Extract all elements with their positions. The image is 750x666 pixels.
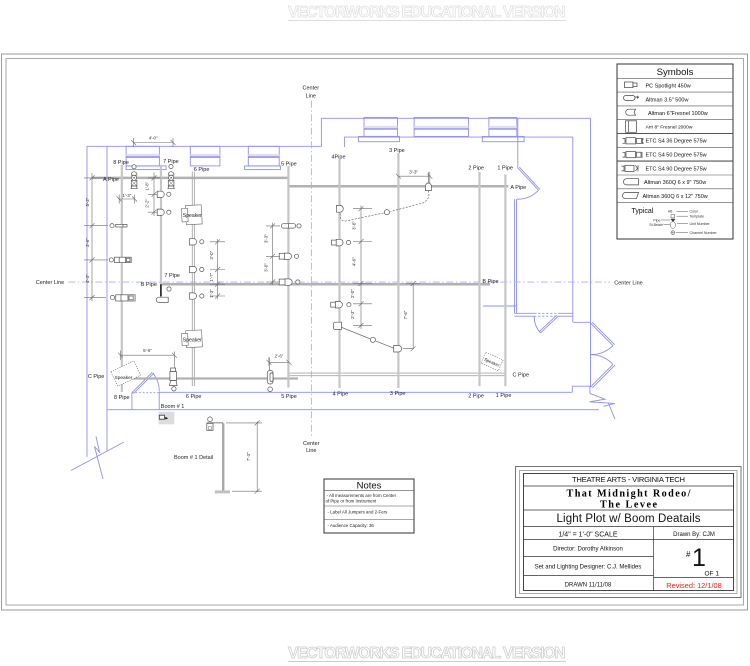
fixture F11 below B pipe xyxy=(156,287,171,303)
fixture F6 on 7 pipe xyxy=(157,191,171,197)
electric box 4 under-rect xyxy=(358,136,399,141)
electric box 6 xyxy=(489,118,517,137)
dim 1'-3" horizontal xyxy=(119,195,134,204)
left wall break diagonal xyxy=(71,442,124,471)
stage right door leaf xyxy=(518,167,540,190)
icon Altman 6 Fresnel xyxy=(626,109,636,115)
boom detail mast xyxy=(222,423,224,490)
svg-text:8 Pipe: 8 Pipe xyxy=(113,160,129,166)
svg-text:5 Pipe: 5 Pipe xyxy=(281,162,297,168)
5 pipe dim line x272.6 xyxy=(272,223,274,286)
3 pipe xyxy=(397,153,399,388)
watermark top xyxy=(288,4,566,21)
svg-text:1'-6": 1'-6" xyxy=(144,181,149,190)
svg-text:2 Pipe: 2 Pipe xyxy=(468,393,484,399)
fixture F5 on A pipe xyxy=(168,164,174,188)
stage left door arc xyxy=(153,373,159,392)
svg-text:Speaker: Speaker xyxy=(183,213,202,219)
svg-text:1'-3": 1'-3" xyxy=(123,193,132,198)
svg-text:3'-0": 3'-0" xyxy=(264,263,269,272)
fixture F18 flag on 4 pipe xyxy=(334,322,342,329)
fixture F14 on 5 pipe xyxy=(279,279,300,285)
alcove door leaf xyxy=(539,315,558,333)
fixture F20 on A pipe right xyxy=(425,172,431,191)
svg-text:Center: Center xyxy=(303,85,320,91)
svg-text:The Levee: The Levee xyxy=(600,500,657,511)
svg-text:3'-3": 3'-3" xyxy=(409,170,418,175)
6 pipe dim line x217.6 xyxy=(217,239,219,299)
alcove south wall right xyxy=(558,313,573,316)
A pipe left xyxy=(92,177,288,180)
stripe band box5 xyxy=(414,126,468,129)
dim 3'-3" top right xyxy=(398,172,429,183)
PIPES xyxy=(92,153,508,392)
svg-text:3'-3": 3'-3" xyxy=(264,234,269,243)
svg-text:VECTORWORKS EDUCATIONAL VERSIO: VECTORWORKS EDUCATIONAL VERSION xyxy=(288,645,566,662)
dim 2'-6" xyxy=(269,357,289,366)
alcove door arc xyxy=(534,316,540,333)
svg-text:7'-3": 7'-3" xyxy=(246,452,251,461)
svg-text:ETC S4 36 Degree 575w: ETC S4 36 Degree 575w xyxy=(646,139,707,145)
stripe band box4 xyxy=(364,126,398,129)
svg-text:Arri 8" Fresnel 2000w: Arri 8" Fresnel 2000w xyxy=(646,124,693,130)
stage left door leaf xyxy=(132,372,154,393)
svg-text:4Pipe: 4Pipe xyxy=(331,154,345,160)
C pipe thick left xyxy=(114,377,298,379)
svg-text:Director: Dorothy Atkinson: Director: Dorothy Atkinson xyxy=(553,547,623,553)
svg-text:3'-6": 3'-6" xyxy=(85,238,90,247)
svg-text:1: 1 xyxy=(692,544,706,572)
fixture F1 on 8 pipe xyxy=(110,224,127,228)
svg-text:Channel Number: Channel Number xyxy=(690,231,718,235)
svg-text:5 Pipe: 5 Pipe xyxy=(281,394,297,400)
fixture F13 on 5 pipe xyxy=(279,253,298,259)
svg-text:Pipe: Pipe xyxy=(653,218,660,222)
7 pipe dim line x154 xyxy=(153,173,155,217)
svg-text:Speaker: Speaker xyxy=(115,375,133,381)
svg-text:VECTORWORKS EDUCATIONAL VERSIO: VECTORWORKS EDUCATIONAL VERSION xyxy=(288,4,566,21)
alcove north line xyxy=(483,305,517,307)
svg-text:4'-0": 4'-0" xyxy=(149,136,158,141)
fixture F17 on 4 pipe xyxy=(331,301,351,308)
svg-text:HB: HB xyxy=(668,210,672,214)
svg-text:3 Pipe: 3 Pipe xyxy=(389,148,405,154)
boom detail group xyxy=(207,417,230,493)
typical diagram xyxy=(632,208,718,235)
fixture F4 on A pipe xyxy=(131,165,137,189)
fixture F15 on 4 pipe xyxy=(337,205,344,212)
svg-text:PC Spotlight 450w: PC Spotlight 450w xyxy=(646,84,691,90)
icon Arri 8 Fresnel xyxy=(626,121,637,133)
corridor door leaf lower xyxy=(591,364,615,388)
svg-text:2'-2": 2'-2" xyxy=(144,199,149,208)
alcove west wall xyxy=(515,199,517,313)
stripe band box6 xyxy=(489,126,517,129)
icon ETC S4 90 xyxy=(622,165,639,171)
svg-text:Revised: 12/1/08: Revised: 12/1/08 xyxy=(666,581,721,590)
svg-text:Color: Color xyxy=(690,210,699,214)
svg-text:C Pipe: C Pipe xyxy=(513,372,530,378)
svg-text:That Midnight Rodeo/: That Midnight Rodeo/ xyxy=(567,489,691,500)
electric box 1 under-rect xyxy=(126,166,166,170)
fixture F19 on 3 pipe xyxy=(394,345,414,352)
8 pipe xyxy=(121,165,123,392)
cable from F20 to F15 dashed xyxy=(391,191,429,212)
svg-text:5'-2": 5'-2" xyxy=(85,197,90,206)
center lines xyxy=(68,101,610,438)
apron edge xyxy=(108,409,600,411)
svg-text:Altman 360Q 6 x 12" 750w: Altman 360Q 6 x 12" 750w xyxy=(643,194,708,200)
svg-text:Typical: Typical xyxy=(632,208,654,215)
svg-text:Altman 3.5" 500w: Altman 3.5" 500w xyxy=(646,97,689,103)
svg-text:Line: Line xyxy=(306,448,316,454)
svg-text:of Pipe or from Instrument: of Pipe or from Instrument xyxy=(326,499,378,504)
fixture F21 on C pipe xyxy=(170,368,178,391)
electric box 3 under-rect xyxy=(245,166,281,170)
alcove south wall left xyxy=(515,313,535,316)
icon PC spotlight xyxy=(625,82,638,88)
svg-text:St.Beam: St.Beam xyxy=(649,223,663,227)
top stage wall outer xyxy=(87,118,591,146)
electric box 6 under-rect xyxy=(482,136,524,141)
svg-text:- Audience Capacity: 36: - Audience Capacity: 36 xyxy=(328,523,375,528)
fixture F10 on 6 pipe xyxy=(190,293,204,299)
svg-text:3'-0": 3'-0" xyxy=(209,250,214,259)
fixture F3 on 8 pipe xyxy=(110,295,135,301)
svg-text:Template: Template xyxy=(690,215,705,219)
2 pipe xyxy=(478,172,480,386)
corridor double door chord dotted xyxy=(590,323,592,387)
svg-text:B Pipe: B Pipe xyxy=(141,282,157,288)
1 pipe xyxy=(504,175,506,387)
svg-text:2 Pipe: 2 Pipe xyxy=(468,165,484,171)
bottom right step xyxy=(572,386,590,393)
TITLE-BLOCK xyxy=(516,467,742,598)
svg-text:5'-6": 5'-6" xyxy=(143,348,152,353)
svg-text:7 Pipe: 7 Pipe xyxy=(164,273,180,279)
svg-text:Unit Number: Unit Number xyxy=(690,222,711,226)
svg-text:3 Pipe: 3 Pipe xyxy=(390,391,406,397)
NOTES-BOX xyxy=(324,479,414,533)
svg-text:1'-3": 1'-3" xyxy=(209,289,214,298)
wall stub right of box6 xyxy=(517,118,519,168)
electric box 5 xyxy=(414,118,468,137)
stage right door arc xyxy=(517,190,539,199)
stage bottom edge xyxy=(159,391,572,393)
svg-text:Notes: Notes xyxy=(357,481,382,492)
svg-text:3'-6": 3'-6" xyxy=(351,221,356,230)
left dim line x92 xyxy=(91,173,93,301)
horizontal center line xyxy=(68,281,610,283)
svg-text:ETC S4 50 Degree 575w: ETC S4 50 Degree 575w xyxy=(646,153,707,159)
svg-text:DRAWN 11/11/08: DRAWN 11/11/08 xyxy=(565,583,612,589)
top stage wall inner xyxy=(345,137,573,322)
svg-text:Drawn By: CJM: Drawn By: CJM xyxy=(673,532,715,538)
A pipe right xyxy=(288,185,508,188)
bottom right break zigzag xyxy=(590,393,616,419)
svg-text:A Pipe: A Pipe xyxy=(510,185,526,191)
svg-text:Altman 360Q 6 x 9" 750w: Altman 360Q 6 x 9" 750w xyxy=(644,180,706,186)
svg-text:7 Pipe: 7 Pipe xyxy=(163,159,179,165)
DIMENSIONS xyxy=(84,138,432,494)
svg-text:C Pipe: C Pipe xyxy=(88,374,105,380)
svg-text:THEATRE ARTS - VIRGINIA TECH: THEATRE ARTS - VIRGINIA TECH xyxy=(572,475,685,484)
svg-text:1/4" = 1'-0" SCALE: 1/4" = 1'-0" SCALE xyxy=(558,532,617,539)
svg-text:Center Line: Center Line xyxy=(614,280,642,286)
svg-text:4'-6": 4'-6" xyxy=(351,257,356,266)
icon Altman 3.5 xyxy=(624,95,640,100)
electric box 2 xyxy=(190,146,220,166)
svg-text:8 Pipe: 8 Pipe xyxy=(114,395,130,401)
fixture F2 on 8 pipe xyxy=(109,257,131,262)
svg-text:Symbols: Symbols xyxy=(657,67,694,78)
icon ETC S4 50 xyxy=(623,152,643,159)
fixture F8 on 6 pipe xyxy=(190,239,204,245)
boom plan symbol xyxy=(159,412,175,425)
4 pipe xyxy=(338,160,340,389)
stripe band box1 xyxy=(126,154,159,157)
stripe band box3 xyxy=(248,154,279,157)
boom detail top arm xyxy=(207,422,223,424)
door jambs xyxy=(132,392,159,409)
corridor door arc upper xyxy=(591,346,614,355)
electric box 4 xyxy=(364,118,398,137)
svg-text:4'-3": 4'-3" xyxy=(85,274,90,283)
fixture F16 on 4 pipe xyxy=(332,239,351,246)
alcove door opening dashed xyxy=(534,313,558,316)
svg-text:B Pipe: B Pipe xyxy=(482,279,498,285)
stage bottom edge dotted xyxy=(132,392,159,394)
B pipe xyxy=(161,283,490,286)
icon 360Q 6x12 xyxy=(623,193,639,199)
SYMBOLS-BOX xyxy=(617,64,733,239)
svg-text:1 Pipe: 1 Pipe xyxy=(496,393,512,399)
C pipe double right xyxy=(288,373,505,376)
5 pipe xyxy=(287,166,289,388)
electric box 1 xyxy=(126,146,159,166)
svg-text:2'-0": 2'-0" xyxy=(350,289,355,298)
svg-text:Center Line: Center Line xyxy=(36,280,64,286)
electric stripes xyxy=(126,126,517,157)
6 pipe double xyxy=(192,172,194,387)
7 pipe xyxy=(160,165,162,284)
svg-text:1'-7": 1'-7" xyxy=(209,272,214,281)
vertical center line xyxy=(310,101,312,438)
stripe band box2 xyxy=(190,154,220,157)
svg-text:1 Pipe: 1 Pipe xyxy=(497,165,513,171)
left outer wall xyxy=(86,146,88,457)
corridor door leaf upper xyxy=(591,322,615,345)
svg-text:OF 1: OF 1 xyxy=(705,571,720,578)
svg-text:#: # xyxy=(686,550,691,559)
svg-text:2'-6": 2'-6" xyxy=(275,354,284,359)
svg-text:7'-6": 7'-6" xyxy=(403,310,408,319)
svg-text:6 Pipe: 6 Pipe xyxy=(186,394,202,400)
electric box 3 xyxy=(248,146,279,166)
fixture F7 on 7 pipe xyxy=(157,209,171,215)
svg-text:- All measurements are from Ce: - All measurements are from Center xyxy=(327,493,397,498)
speaker 3 rotated on C pipe xyxy=(111,361,141,387)
svg-text:4 Pipe: 4 Pipe xyxy=(333,391,349,397)
icon ETC S4 36 xyxy=(623,138,645,144)
svg-text:Altman 6"Fresnel 1000w: Altman 6"Fresnel 1000w xyxy=(648,111,708,117)
svg-text:Set and Lighting Designer: C.J: Set and Lighting Designer: C.J. Mellides xyxy=(535,565,642,571)
svg-text:2'-3": 2'-3" xyxy=(350,310,355,319)
svg-text:Boom # 1 Detail: Boom # 1 Detail xyxy=(174,455,213,461)
boom detail head square xyxy=(207,423,213,430)
PLAN-WALLS xyxy=(71,118,615,480)
icon 360Q 6x9 xyxy=(624,179,639,185)
speaker 1 on 6 pipe xyxy=(181,205,202,225)
speaker 4 rotated right side xyxy=(481,352,503,371)
svg-text:Speaker: Speaker xyxy=(183,337,202,343)
fixture F12 on 5 pipe xyxy=(281,224,301,228)
svg-text:6 Pipe: 6 Pipe xyxy=(194,167,210,173)
right outer wall xyxy=(590,118,592,387)
corridor jog xyxy=(573,321,591,323)
svg-text:Boom # 1: Boom # 1 xyxy=(161,404,185,410)
fixture F9 on 6 pipe xyxy=(190,266,204,272)
fixture F22 on C pipe xyxy=(267,358,273,392)
watermark bottom xyxy=(288,645,566,662)
svg-text:ETC S4 90 Degree 575w: ETC S4 90 Degree 575w xyxy=(646,166,707,172)
boom detail head circle xyxy=(208,417,213,422)
svg-text:- Label All Jumpers and 2-Fers: - Label All Jumpers and 2-Fers xyxy=(328,510,389,515)
boom detail base plate xyxy=(215,490,230,493)
FIXTURES xyxy=(109,164,431,391)
sidearm below B pipe xyxy=(160,284,162,296)
boom detail dim x257.2 xyxy=(226,422,262,492)
dim 4'-0" top xyxy=(134,138,174,147)
3 pipe dim line x413.2 xyxy=(406,284,420,349)
left inner wall xyxy=(106,146,108,450)
svg-text:A Pipe: A Pipe xyxy=(103,177,119,183)
corridor door arc lower xyxy=(591,355,614,365)
left wall break jag xyxy=(95,437,104,480)
speaker 2 on 6 pipe xyxy=(181,330,202,348)
cable from F18 to F19 xyxy=(342,327,370,338)
svg-text:Line: Line xyxy=(306,93,316,99)
svg-text:Center: Center xyxy=(303,441,320,447)
dim 5'-6" xyxy=(121,351,175,368)
svg-text:Light Plot w/ Boom Deatails: Light Plot w/ Boom Deatails xyxy=(557,513,701,525)
4 pipe dim line x361 xyxy=(360,206,362,330)
